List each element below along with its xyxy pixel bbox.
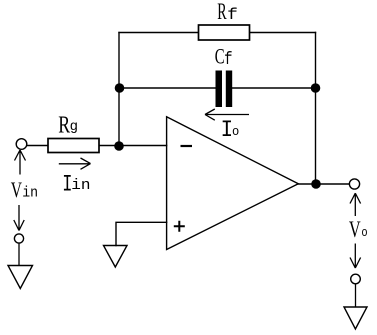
wire right vertical feedback: [315, 33, 317, 185]
svg-text:V: V: [11, 178, 22, 202]
op-amp U1: [167, 117, 299, 250]
svg-text:in: in: [71, 177, 90, 194]
svg-text:o: o: [361, 225, 367, 240]
circle above right ground: [351, 274, 361, 284]
label Vo: [349, 217, 368, 242]
op-amp minus sign: [181, 145, 193, 147]
wire input from terminal to Rg: [27, 145, 48, 147]
capacitor Cf right plate: [226, 71, 232, 108]
svg-text:f: f: [224, 50, 232, 70]
wire capacitor row right segment: [232, 87, 315, 89]
wire circle to right ground: [355, 284, 357, 307]
svg-text:R: R: [217, 0, 227, 25]
arrow Vo up: [350, 193, 361, 216]
wire capacitor row left segment: [119, 87, 216, 89]
wire circle to left ground: [18, 243, 20, 265]
svg-text:V: V: [349, 217, 361, 242]
wire Rg to inverting input: [99, 145, 167, 147]
op-amp plus sign: [174, 221, 185, 232]
svg-text:o: o: [232, 125, 239, 139]
ground middle (non-inverting input): [104, 246, 128, 268]
label Io: [221, 117, 240, 143]
node junction dot top-right: [311, 83, 321, 93]
capacitor Cf left plate: [216, 71, 223, 108]
resistor Rf: [199, 25, 250, 40]
arrow Vin up: [15, 150, 26, 175]
node junction dot inverting input: [114, 141, 124, 151]
wire top feedback right segment: [250, 32, 316, 34]
ground left: [8, 266, 33, 289]
resistor Rg: [48, 139, 99, 153]
label Rg: [58, 111, 78, 138]
current arrow Io: [205, 109, 249, 120]
svg-text:f: f: [227, 7, 238, 25]
terminal circle Vo: [349, 179, 359, 189]
wire top feedback left segment: [119, 32, 199, 34]
circle above left ground: [14, 234, 23, 243]
current arrow Iin: [59, 158, 91, 169]
arrow Vo down: [350, 244, 361, 269]
node junction dot top-left: [115, 83, 125, 93]
label Rf: [217, 0, 238, 25]
wire non-inverting input to ground: [116, 222, 167, 245]
terminal circle Vin: [16, 139, 27, 150]
svg-text:C: C: [215, 45, 225, 70]
ground right: [344, 307, 367, 329]
node junction dot output: [311, 179, 321, 189]
label Cf: [215, 45, 233, 70]
arrow Vin down: [14, 205, 24, 231]
label Vin: [11, 178, 38, 202]
svg-text:in: in: [22, 185, 38, 202]
svg-text:g: g: [70, 119, 78, 135]
label Iin: [62, 172, 90, 198]
wire output: [298, 183, 349, 185]
wire left vertical feedback: [118, 33, 120, 146]
